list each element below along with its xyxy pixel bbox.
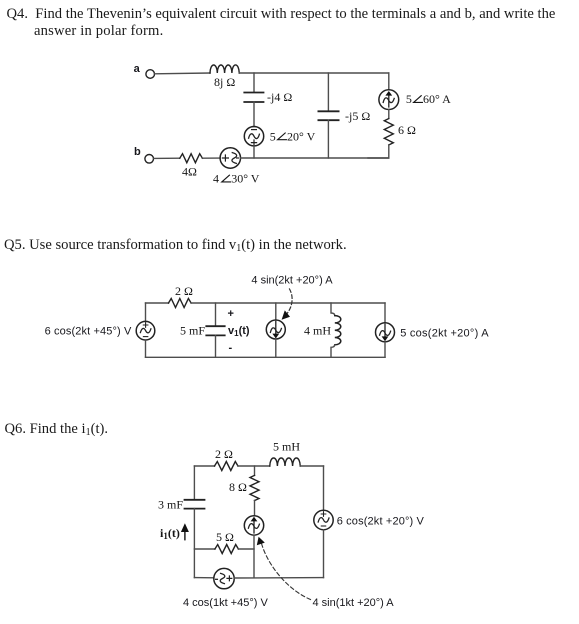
- voltage source 4cos Q6: [214, 568, 234, 588]
- angle symbol for 30: [222, 175, 231, 182]
- inductor 4 mH: [335, 316, 341, 345]
- capacitor -j4 ohm: [244, 93, 263, 103]
- wire 4sin source down to 5ohm junction and bottom: [253, 535, 255, 577]
- wire top right corner down: [384, 303, 386, 323]
- svg-text:4: 4: [213, 172, 219, 186]
- svg-text:4Ω: 4Ω: [182, 165, 197, 179]
- svg-text:3 mF: 3 mF: [158, 498, 183, 512]
- svg-text:6 Ω: 6 Ω: [398, 123, 416, 137]
- terminal a: [146, 70, 155, 79]
- resistor 2 ohm Q6: [215, 462, 239, 471]
- wire 5cos to bottom corner: [384, 342, 386, 358]
- svg-text:2 Ω: 2 Ω: [175, 284, 193, 298]
- wire resistor to source V2: [202, 157, 220, 159]
- wire inductor branch upper: [331, 303, 335, 316]
- wire source 4cos to bottom right corner: [234, 577, 323, 579]
- current source 4sin Q6: [244, 516, 263, 535]
- wire b to resistor 4 ohm: [154, 157, 180, 159]
- svg-text:6 cos(2kt +20°) V: 6 cos(2kt +20°) V: [337, 516, 425, 528]
- voltage source 4&ang;30 V: [220, 148, 240, 168]
- wire source 6cos to bottom corner: [323, 530, 325, 578]
- svg-text:5: 5: [406, 92, 412, 106]
- wire 4sin source to bottom: [275, 339, 277, 357]
- svg-text:i1(t): i1(t): [160, 526, 180, 541]
- wire inductor to bottom: [331, 345, 335, 358]
- svg-text:4 cos(1kt +45°) V: 4 cos(1kt +45°) V: [183, 597, 268, 609]
- question Q4 text line 2: [34, 23, 163, 41]
- label 4/30 V with drawn angle sign: [213, 172, 260, 186]
- wire cap 3mF to bottom left corner: [193, 509, 195, 578]
- inductor 5 mH: [270, 458, 300, 466]
- wire source V2 to right corner bottom: [241, 157, 389, 159]
- svg-text:b: b: [134, 146, 141, 158]
- svg-text:8 Ω: 8 Ω: [229, 480, 247, 494]
- wire 5 ohm to middle branch: [238, 548, 254, 550]
- wire resistor 8 to current source: [254, 500, 256, 515]
- wire inductor to right corner: [300, 465, 323, 467]
- wire bottom Q5: [146, 356, 386, 358]
- svg-text:-j5 Ω: -j5 Ω: [345, 109, 370, 123]
- wire top: inductor to right corner: [239, 72, 389, 74]
- svg-text:5 cos(2kt +20°) A: 5 cos(2kt +20°) A: [400, 328, 489, 340]
- wire cap to source V1: [253, 102, 255, 127]
- capacitor 3 mF: [185, 500, 205, 509]
- angle symbol for 60: [414, 96, 423, 103]
- inductor 8j ohm: [210, 65, 239, 73]
- wire cap 5mF branch upper: [215, 303, 217, 326]
- wire top left to resistor: [146, 302, 169, 304]
- voltage source 6cos: [136, 321, 155, 340]
- svg-text:4 mH: 4 mH: [304, 324, 331, 338]
- svg-text:5: 5: [270, 129, 276, 143]
- label 5/20 V with drawn angle sign: [270, 129, 316, 143]
- svg-text:4 sin(1kt +20°) A: 4 sin(1kt +20°) A: [313, 597, 395, 609]
- wire current source 4sin branch upper: [275, 303, 277, 320]
- wire right corner down to current source: [388, 73, 390, 90]
- wire resistor to bottom corner: [368, 145, 389, 158]
- svg-text:5 mF: 5 mF: [180, 324, 205, 338]
- question Q4 text line 1: [7, 6, 556, 24]
- svg-text:6 cos(2kt +45°) V: 6 cos(2kt +45°) V: [45, 326, 132, 338]
- wire top left corner down stub: [193, 466, 195, 499]
- svg-text:5 mH: 5 mH: [273, 440, 300, 454]
- svg-text:60° A: 60° A: [423, 92, 451, 106]
- wire cap -j5 to bottom: [327, 120, 329, 158]
- capacitor 5 mF: [206, 326, 224, 335]
- svg-text:a: a: [134, 63, 141, 75]
- voltage source 5&ang;20 V: [244, 127, 263, 146]
- resistor 5 ohm: [215, 545, 239, 554]
- wire cap -j4 branch upper: [253, 73, 255, 92]
- voltage source 6cos Q6: [314, 510, 333, 529]
- wire node down to resistor 8 ohm: [254, 466, 256, 475]
- wire source to resistor 6 ohm: [388, 110, 390, 119]
- wire right corner down to source 6cos: [323, 466, 325, 510]
- angle symbol for 20: [278, 133, 287, 140]
- wire source V1 to bottom: [253, 146, 255, 158]
- question Q5 text: [4, 237, 347, 255]
- capacitor -j5 ohm: [318, 111, 338, 120]
- svg-text:30° V: 30° V: [231, 172, 260, 186]
- wire top left to resistor 2 ohm: [194, 465, 214, 467]
- dashed pointer arrowhead: [282, 310, 290, 319]
- wire left vertical top: [145, 303, 147, 321]
- resistor 2 ohm Q5: [169, 299, 192, 308]
- resistor 4 ohm: [180, 154, 203, 163]
- wire cap -j5 branch upper: [327, 73, 329, 111]
- label 5/60 A with drawn angle sign: [406, 92, 451, 106]
- current source 4sin Q5: [266, 320, 285, 339]
- svg-text:-j4 Ω: -j4 Ω: [267, 90, 292, 104]
- svg-text:5 Ω: 5 Ω: [216, 530, 234, 544]
- wire resistor to right top: [191, 302, 385, 304]
- terminal b: [145, 155, 154, 164]
- current source 5&ang;60 A: [379, 90, 399, 110]
- dashed pointer to 4sin Q6: [262, 544, 311, 600]
- wire left vertical bottom: [145, 340, 147, 357]
- svg-text:-: -: [229, 342, 233, 354]
- wire 5 ohm branch left: [194, 548, 215, 550]
- current source 5cos Q5: [376, 323, 395, 342]
- wire bottom left to source 4cos: [194, 577, 213, 579]
- wire cap to bottom: [215, 335, 217, 357]
- wire resistor to node and inductor: [238, 465, 270, 467]
- resistor 8 ohm vertical: [250, 475, 259, 500]
- wire a to inductor: [155, 72, 210, 75]
- dashed pointer arrowhead Q6: [257, 537, 265, 545]
- svg-text:4 sin(2kt +20°) A: 4 sin(2kt +20°) A: [251, 275, 333, 287]
- svg-text:20° V: 20° V: [287, 129, 316, 143]
- svg-text:+: +: [228, 308, 234, 320]
- svg-text:v1(t): v1(t): [228, 325, 250, 338]
- resistor 6 ohm vertical: [384, 119, 393, 145]
- question Q6 text: [5, 421, 109, 439]
- current arrow i1: [181, 523, 189, 540]
- svg-text:2 Ω: 2 Ω: [215, 447, 233, 461]
- svg-text:8j Ω: 8j Ω: [214, 75, 235, 89]
- dashed pointer to 4sin source: [287, 289, 293, 314]
